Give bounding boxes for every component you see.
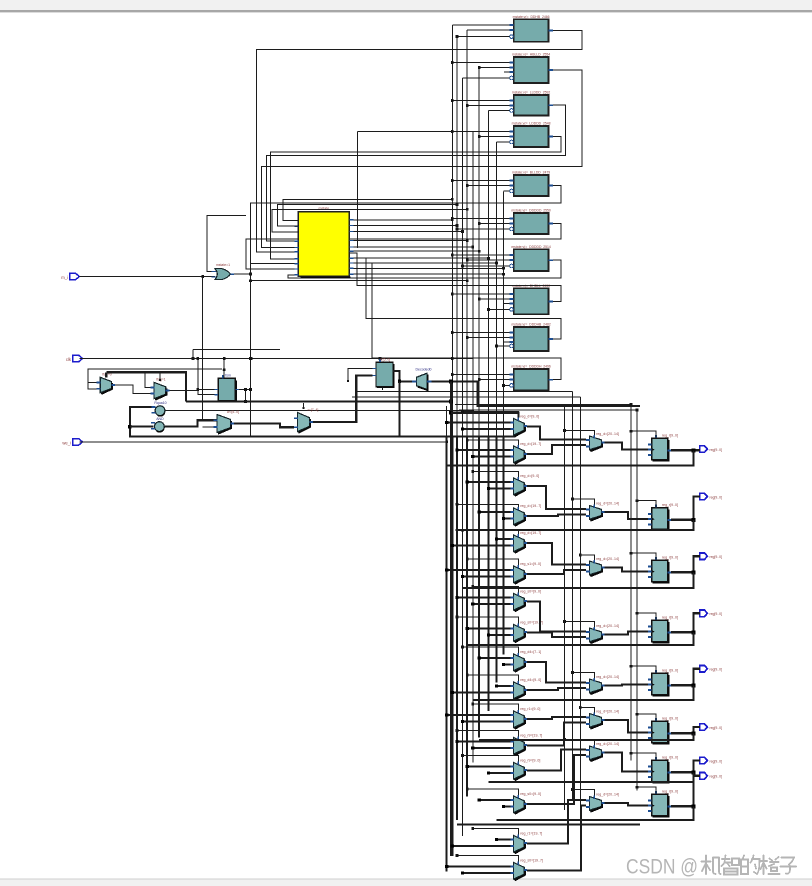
combine mux B2 reg_d=[20..14] [586,502,619,521]
wire muxes A11,A12 to B6 [527,717,586,745]
state mux block U9 mstate:v(=_DDDHB_2482 [509,322,553,351]
wire inputs to mux A8 [466,627,511,637]
wire fsm input wire [198,389,218,391]
svg-text:reg_d=[20..14]: reg_d=[20..14] [596,675,619,679]
state mux block U3 mstate:v(=_LLDDD_2592 [509,90,553,115]
wire m_i drop to w mux [203,426,214,428]
svg-text:reg_r1=[19..7]: reg_r1=[19..7] [520,832,542,836]
wire vertical bus x479 [478,68,480,738]
wire mux B7 to register C7 [605,752,648,771]
wire inputs to block U9 [451,331,510,347]
wire clock tap to C4 [636,612,656,620]
wire mstate pin1 staircase [283,198,454,221]
svg-text:reg[9..0]: reg[9..0] [710,775,722,779]
state mux block U7 mstate:v(=_DDDDD_2514 [509,245,553,271]
input mux A4 reg_d=[19..7] [510,504,541,526]
register fsm [215,373,239,401]
input mux A9 reg_d4=[7..1] [510,650,541,672]
svg-text:reg[9..0]: reg[9..0] [710,759,722,763]
svg-text:reg_d=[19..7]: reg_d=[19..7] [520,442,541,446]
wire select to mux A11 [471,703,518,710]
register C7 reg_r[9..0] [648,756,678,783]
wire bus vertical main [449,402,453,856]
svg-text:Rqua10: Rqua10 [154,401,166,405]
wire register C4 output to port and feedback [467,613,700,645]
wire segment x357 vertical [358,131,460,248]
wire OR gate input2 [207,215,246,271]
wire clock tap to C7 [630,752,656,760]
svg-text:reg_r9=[19..7]: reg_r9=[19..7] [520,734,542,738]
wire inputs to block U4 [451,130,510,142]
state mux block U4 mstate:v(=_LDDDD_2548 [509,121,553,147]
wire register C6 output to port and feedback [479,727,700,740]
input mux A5 reg_d=[19..7] [510,531,541,553]
svg-text:mstate:v(=_BLLDD_2479: mstate:v(=_BLLDD_2479 [512,170,550,174]
wire thick segment y824 [457,824,640,826]
svg-text:reg_d=[19..7]: reg_d=[19..7] [520,531,541,535]
register C1 reg_r[9..0] [648,434,678,461]
wire flag1 out [169,389,198,391]
input mux A6 reg_s1=[9..0] [510,562,541,584]
wire AND out to w mux [164,420,217,426]
svg-text:mstate=1: mstate=1 [216,263,230,267]
wire inputs to block U5 [451,179,510,191]
register C4 reg_r[9..0] [648,616,678,643]
svg-text:mstate:v(=_LLDDD_2592: mstate:v(=_LLDDD_2592 [512,90,550,94]
svg-text:reg_d=[20..14]: reg_d=[20..14] [596,502,619,506]
wire inputs to block U10 [451,373,510,387]
svg-text:reg_d=[20..14]: reg_d=[20..14] [596,557,619,561]
wire vertical bus x473 [472,131,474,762]
combine mux B3 reg_d=[20..14] [586,557,619,576]
wire mstate pin2 staircase [277,203,458,226]
wire clock tap to C2 [636,499,656,507]
wire inputs to mux A10 [451,684,511,694]
svg-text:clk: clk [66,357,72,362]
wire inputs to mux A1 [445,421,510,431]
svg-text:reg_r[9..0]: reg_r[9..0] [662,556,678,560]
wire clk net [80,357,473,360]
wire muxes A7,A8 to B4 [527,601,586,637]
wire inputs to block U7 [451,254,510,268]
svg-text:we_i: we_i [62,441,71,446]
wire main horizontal bus [186,400,453,404]
input mux A2 reg_d=[19..7] [510,442,541,464]
wire inputs to mux A2 [455,448,510,458]
svg-text:xr[5..0]: xr[5..0] [380,357,390,361]
svg-text:reg[9..0]: reg[9..0] [710,668,722,672]
svg-text:mstate:v(=_LDDDD_2548: mstate:v(=_LDDDD_2548 [512,121,551,125]
wire select to mux A12 [456,729,519,736]
wire inputs to mux A11 [445,713,510,723]
svg-text:mstate:v(=_HBLLD_2554: mstate:v(=_HBLLD_2554 [512,52,550,56]
state mux block U6 mstate:v(=_DDDDD_2550 [509,208,553,234]
svg-text:reg_r[9..0]: reg_r[9..0] [662,756,678,760]
input port we_i [62,439,82,446]
wire select to mux A9 [461,646,518,653]
wire select to mux B6 [579,706,595,712]
svg-text:CSDN @: CSDN @ [626,855,698,879]
register C6 reg_r[9..0] [648,717,678,744]
wire Rqual0 out long [165,409,474,412]
wire select to mux B2 [571,498,594,505]
wire w out to r mux [234,423,294,427]
wire inputs to mux A6 [445,568,510,578]
wire vertical bus x452 [451,25,453,856]
state mux block U2 mstate:v(=_HBLLD_2554 [509,52,553,83]
wire inputs to mux A9 [478,656,511,666]
watermark CSDN @ji-zhi-de-cheng-zi [626,855,796,879]
mux w=[5..0] [213,410,239,434]
combine mux B7 reg_d=[20..14] [586,742,619,761]
wire inputs to mux A13 [466,765,511,775]
decoder Decoded0 [412,368,432,391]
svg-text:r=[7..4]: r=[7..4] [308,408,319,412]
wire select to mux A8 [456,616,519,624]
wire AND input from rail [130,426,153,428]
svg-text:reg_r[9..0]: reg_r[9..0] [662,434,678,438]
wire register C7 output to port and feedback [489,760,700,782]
wire register C3 output to port and feedback [462,556,699,588]
wire vertical bus x503 [502,192,504,655]
wire select to mux A14 [466,788,519,795]
wire select to mux A2 [466,439,519,445]
svg-text:reg_d4=[9..0]: reg_d4=[9..0] [520,678,541,682]
svg-text:reg_r[9..0]: reg_r[9..0] [662,503,678,507]
svg-text:mstate:v(=_DDDHB_2482: mstate:v(=_DDDHB_2482 [511,322,550,326]
wire select to mux B1 [563,429,595,435]
register C8 reg_r[9..0] [648,790,678,817]
wire select to mux B7 [563,738,595,745]
state mux block U8 mstate:v(=_DHBLL_2450 [509,284,553,315]
wire select to mux A1 [461,410,518,417]
svg-text:mstate:v(=_DDDDH_2496: mstate:v(=_DDDDH_2496 [511,364,551,368]
wire clock rail 1 [630,403,633,761]
wire select verticals B column [564,392,580,813]
wire inputs to block U1 [452,25,509,38]
wire vertical bus x462 [461,78,463,836]
wire muxes A1,A2 to B1 [527,426,586,454]
wire segment thin rows below state column [352,392,580,397]
output port reg[9..0] #3 [700,553,722,560]
input port m_i [61,273,79,280]
svg-text:reg[9..0]: reg[9..0] [710,612,722,616]
output port reg[9..0] #1 [700,446,722,453]
wire register C2 output to port and feedback [456,497,700,530]
wire mstate outputs to distribution bus [353,218,504,275]
wire thick top rail to flag0 [106,372,186,401]
input mux A7 reg_s0=[9..0] [510,590,541,612]
svg-text:mstate:v(=_DDHB_2466: mstate:v(=_DDHB_2466 [513,15,550,19]
svg-text:reg_r[9..0]: reg_r[9..0] [662,717,678,721]
wire feedback loop from U9 to mstate [349,258,561,339]
wire xr out to Decoded [393,371,417,437]
wire inputs to mux A7 [455,596,510,606]
wire clock rail 2 [636,409,639,791]
wire inputs to mux A16 [445,865,510,875]
output port reg[9..0] #8 [700,773,722,780]
svg-text:reg[9..0]: reg[9..0] [710,496,722,500]
wire select to mux B3 [579,554,595,560]
wire select to mux A3 [471,470,518,477]
wire select to mux A5 [461,529,518,534]
svg-text:reg_r[9..0]: reg_r[9..0] [662,790,678,794]
svg-text:m_i: m_i [61,275,68,280]
wire feedback loop from U7 to mstate [288,260,561,278]
svg-text:reg_d4=[7..1]: reg_d4=[7..1] [520,650,541,654]
wire vertical bus x496 [496,142,498,682]
mux flag=0 [97,373,115,395]
wire mux B4 to register C4 [605,632,648,635]
combine mux B1 reg_d=[20..14] [586,432,619,451]
combine mux B8 reg_d=[20..14] [586,793,619,812]
wire fsm out [239,388,252,403]
svg-text:reg_d=[20..14]: reg_d=[20..14] [596,624,619,628]
wire select to mux B8 [571,788,594,795]
input mux A11 reg_r1=[9..0] [510,707,540,729]
svg-text:mstate:v(=_DDDDD_2514: mstate:v(=_DDDDD_2514 [511,245,551,249]
wire muxes A3,A4 to B2 [527,486,586,516]
svg-text:reg_r1=[9..0]: reg_r1=[9..0] [520,707,540,711]
register xr[5..0] [372,357,396,390]
wire register C1 output to port and feedback [447,448,700,465]
input mux A16 reg_s0=[19..7] [510,859,543,881]
output port reg[9..0] #7 [700,757,722,764]
wire inputs to block U6 [451,217,510,230]
combine mux B6 reg_d=[20..14] [586,710,619,729]
svg-text:reg_s0=[19..7]: reg_s0=[19..7] [520,859,543,863]
wire vertical bus x447 [446,406,448,872]
combine mux B5 reg_d=[20..14] [586,675,619,694]
top toolbar strip [0,0,812,13]
svg-text:reg[9..0]: reg[9..0] [710,555,722,559]
wire bus to first mux [451,413,519,418]
wire clock tap to C8 [636,786,656,794]
wire OR output to left loop bus [234,203,252,437]
wire segment thin rows 404/410 [455,404,637,410]
wire mux B2 to register C2 [605,512,648,519]
bottom status strip [0,879,812,886]
input mux A12 reg_r9=[19..7] [510,734,542,756]
svg-text:reg_d=[9..0]: reg_d=[9..0] [520,474,539,478]
svg-text:Decoded0: Decoded0 [416,368,432,372]
svg-text:reg_r[9..0]: reg_r[9..0] [662,669,678,673]
svg-text:reg_s1=[9..0]: reg_s1=[9..0] [520,562,541,566]
output port reg[9..0] #2 [700,493,722,500]
wire clk drop to fsm [223,359,225,378]
svg-text:reg_r[9..0]: reg_r[9..0] [662,616,678,620]
svg-text:reg_r9=[9..0]: reg_r9=[9..0] [520,759,540,763]
wire select to mux B5 [571,671,594,678]
input mux A10 reg_d4=[9..0] [510,678,541,700]
wire muxes A13,A14 to B7 [527,750,586,804]
wire segment below mstate [249,279,469,282]
wire feedback loop from U2 to mstate [261,70,581,248]
wire mux B8 to register C8 [605,803,648,806]
svg-text:reg[9..0]: reg[9..0] [710,448,722,452]
wire register C8 output to port and feedback [497,776,700,820]
wire flag0 inputs [88,369,222,389]
wire feedback loop from U10 to mstate [349,263,561,380]
wire feedback loop from U1 to mstate [256,31,582,252]
state mux block U10 mstate:v(=_DDDDH_2496 [509,364,553,390]
input port clk [66,355,83,362]
svg-text:mstate:v(=_DDDDD_2550: mstate:v(=_DDDDD_2550 [511,208,551,212]
wire select to mux B4 [563,620,595,627]
wire feedback loop from U6 to mstate [246,224,561,269]
wire select to mux A16 [456,854,519,861]
svg-text:w=[5..0]: w=[5..0] [227,410,239,414]
wire select to mux A13 [461,754,518,761]
wire vertical bus x488 [488,111,490,712]
svg-text:reg_d=[19..7]: reg_d=[19..7] [520,504,541,508]
svg-text:reg_s0=[9..0]: reg_s0=[9..0] [520,792,541,796]
gate Rqual0 [152,401,167,416]
output port reg[9..0] #4 [700,610,722,617]
wire inputs to mux A15 [451,838,511,848]
wire muxes A9,A10 to B5 [527,662,586,690]
wire we_i net [80,440,449,443]
wire mux B3 to register C3 [605,567,648,571]
wire clk drop x198 [196,359,218,395]
wire thick rail left [128,407,515,437]
wire feedback loop from U5 to mstate [250,186,561,264]
wire select to mux A4 [456,503,519,507]
wire clock tap to C3 [630,552,656,560]
svg-text:reg_d=[20..14]: reg_d=[20..14] [596,710,619,714]
svg-text:reg_d=[20..14]: reg_d=[20..14] [596,793,619,797]
wire segment y349 [192,350,280,360]
wire inputs to mux A14 [478,798,511,808]
wire xr input upper [347,369,373,383]
input mux A1 reg_d=[9..0] [510,415,539,437]
FSM state register block mstate (yellow) [294,207,353,278]
wire clock tap to C6 [636,713,656,721]
wire select to mux A10 [466,674,519,681]
gate AND [151,417,164,432]
wire register C5 output to port and feedback [473,669,700,700]
wire inputs to block U3 [451,99,510,110]
wire inputs to mux A4 [478,510,511,520]
register C2 reg_r[9..0] [648,503,678,530]
wire mux B5 to register C5 [605,684,648,687]
state mux block U5 mstate:v(=_BLLDD_2479 [509,170,553,196]
svg-text:reg_s0=[9..0]: reg_s0=[9..0] [520,590,541,594]
wire feedback loop from U8 to mstate [349,253,561,301]
wire inputs to block U8 [451,293,510,311]
svg-text:fsm: fsm [225,373,231,377]
svg-text:reg_d=[20..14]: reg_d=[20..14] [596,742,619,746]
input mux A15 reg_r1=[19..7] [510,832,542,854]
wire mux B6 to register C6 [605,720,648,733]
svg-text:reg[9..0]: reg[9..0] [710,726,722,730]
wire feedback loop from U3 to mstate [266,105,565,241]
comparator gate mstate=1 [212,263,235,280]
wire clk drop to xr reg [379,359,381,363]
mux r=[7..4] [294,403,319,433]
wire mstate pin3 staircase [272,208,468,232]
output port reg[9..0] #5 [700,665,722,672]
combine mux B4 reg_d=[20..14] [586,624,619,643]
wire flag1 input upper [145,374,150,388]
wire m_i net [79,275,217,420]
mux flag=1 [150,372,169,400]
input mux A8 reg_s0=[19..7] [510,621,543,643]
wire inputs to mux A5 [451,537,511,547]
svg-text:reg_d=[9..0]: reg_d=[9..0] [520,415,539,419]
wire select to mux A7 [471,585,518,592]
wire clock tap to C5 [630,665,656,673]
wire mux B1 to register C1 [605,442,648,449]
wire muxes A5,A6 to B3 [527,543,586,574]
wire Decoded out [432,379,641,406]
wire fsm clock from clk [223,368,226,371]
wire vertical bus x457 [456,35,458,820]
input mux A14 reg_s0=[9..0] [510,792,541,814]
wire feedback loop from U4 to mstate [270,137,561,259]
svg-text:reg_d=[20..14]: reg_d=[20..14] [596,432,619,436]
svg-text:mstate: mstate [319,207,330,211]
wire clock tap to C1 [630,430,656,438]
wire vertical bus x467 [466,30,468,796]
svg-text:AND: AND [156,417,164,421]
wire select to mux A15 [471,827,518,834]
input mux A3 reg_d=[9..0] [510,474,539,496]
register C3 reg_r[9..0] [648,556,678,583]
input mux A13 reg_r9=[9..0] [510,759,540,781]
wire inputs to block U2 [451,61,510,78]
wire inputs to mux A3 [466,480,511,490]
wire r out to xr reg [313,376,372,423]
register C5 reg_r[9..0] [648,669,678,696]
wire inputs to mux A12 [455,740,510,750]
wire select to mux A6 [466,558,519,565]
wire muxes A15,A16 to B8 [527,800,586,870]
output port reg[9..0] #6 [700,724,722,731]
state mux block U1 mstate:v(=_DDHB_2466 [509,15,553,42]
wire flag0 out to flag1 [115,385,151,394]
